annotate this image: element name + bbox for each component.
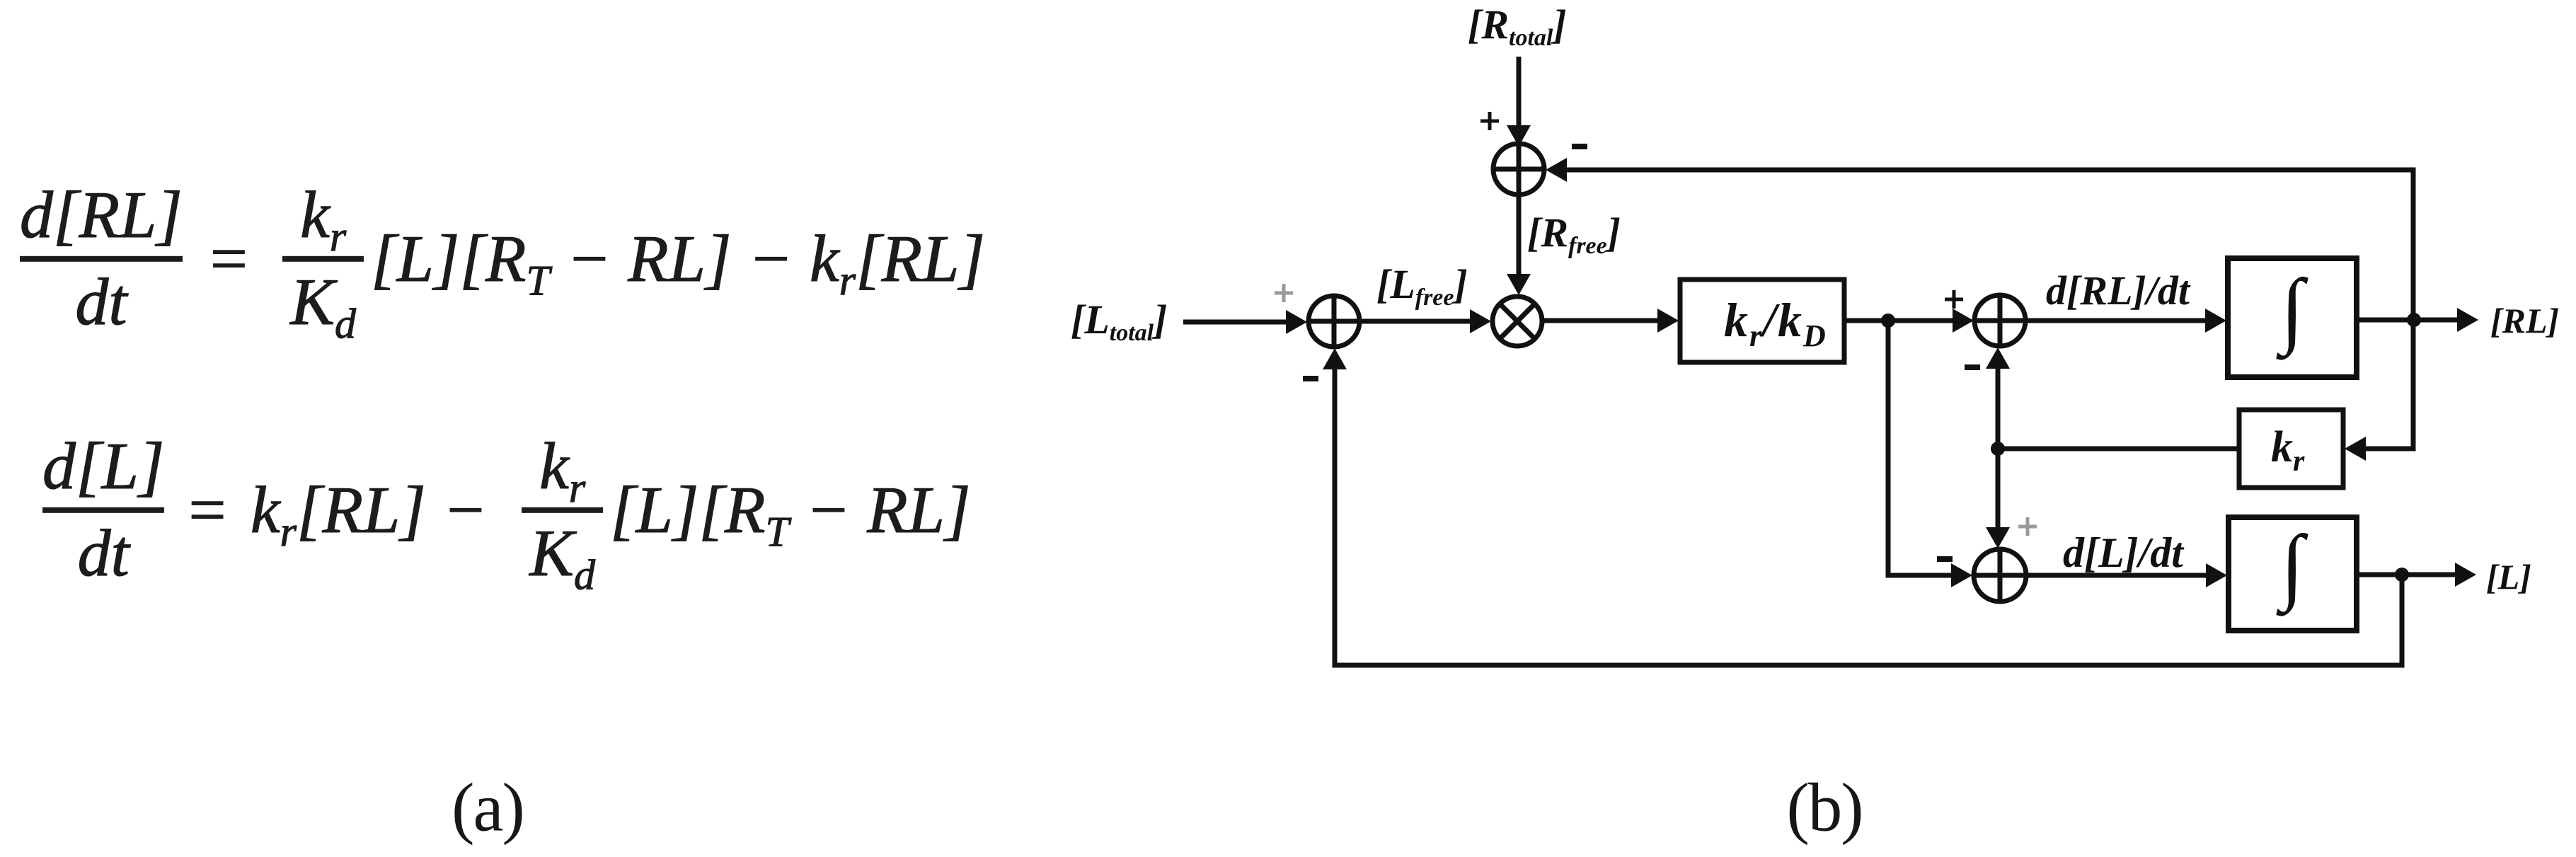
svg-text:d[L]/dt: d[L]/dt	[2063, 529, 2185, 576]
wire node up to S3 minus	[1996, 366, 2001, 449]
junction dot L output	[2395, 568, 2409, 582]
box integrator 2	[2229, 517, 2357, 631]
svg-text:[RL]: [RL]	[2490, 301, 2559, 340]
box kr/kD	[1680, 280, 1844, 362]
arrowhead into kr box right	[2345, 437, 2366, 461]
arrowhead into multiplier left	[1470, 309, 1491, 333]
arrowhead L output	[2455, 563, 2476, 587]
junction dot after kr/kD	[1881, 314, 1895, 328]
summing junction S2 (L_total - feedback)	[1309, 296, 1359, 347]
box kr	[2239, 410, 2343, 488]
arrowhead into S2 bottom	[1323, 348, 1347, 369]
caption (b)	[1786, 769, 1862, 847]
wire S3 to integrator 1	[2025, 318, 2208, 323]
wire node down to S4 plus	[1996, 449, 2001, 531]
box integrator 1	[2228, 258, 2357, 377]
wire L_total input	[1183, 320, 1288, 325]
summing junction S4 (d[L]/dt)	[1974, 549, 2026, 602]
arrowhead into S3 bottom	[1986, 347, 2010, 369]
arrowhead into multiplier top	[1507, 274, 1531, 295]
minus sign S3	[1965, 364, 1980, 370]
caption (a)	[452, 769, 524, 847]
equation (a) line 1: d[RL]/dt = kr/Kd [L][RT - RL] - kr[RL]	[20, 189, 985, 329]
svg-text:d[RL]/dt: d[RL]/dt	[2046, 268, 2191, 314]
arrowhead into S4 top	[1986, 527, 2010, 548]
svg-text:[L]: [L]	[2486, 557, 2531, 597]
arrowhead into S1 top	[1507, 125, 1531, 146]
svg-text:kr: kr	[2271, 423, 2305, 478]
arrowhead into kr/kD box	[1657, 309, 1679, 333]
minus sign S2	[1303, 376, 1318, 381]
svg-text:∫: ∫	[2276, 262, 2309, 361]
summing junction S1 (R_total - feedback)	[1493, 144, 1544, 195]
svg-text:∫: ∫	[2276, 518, 2309, 617]
svg-text:[Rtotal]: [Rtotal]	[1468, 1, 1567, 51]
arrowhead into S3 left	[1953, 309, 1974, 333]
wire kr output to node	[1998, 447, 2239, 451]
wire R_total input	[1517, 57, 1522, 127]
arrowhead into S1 right	[1546, 158, 1567, 182]
svg-text:[Lfree]: [Lfree]	[1376, 261, 1468, 311]
wire S2 to multiplier	[1359, 319, 1473, 324]
wire S4 to integrator 2	[2026, 573, 2209, 578]
wire multiplier to kr/kD box	[1542, 318, 1660, 323]
wire S1 to multiplier	[1517, 195, 1522, 277]
arrowhead into integrator 2	[2206, 563, 2227, 587]
wire branch kD node down to S4	[1888, 321, 1953, 575]
multiplier M	[1493, 297, 1542, 346]
wire integrator 1 output to RL	[2357, 318, 2459, 323]
svg-text:kr/kD: kr/kD	[1724, 293, 1827, 353]
wire bottom feedback	[1335, 367, 2402, 665]
arrowhead RL output	[2457, 308, 2478, 332]
arrowhead into integrator 1	[2205, 309, 2226, 333]
plus sign S4	[2018, 517, 2037, 536]
arrowhead into S4 left	[1951, 563, 1972, 587]
summing junction S3 (d[RL]/dt)	[1974, 295, 2025, 346]
plus sign S1	[1480, 112, 1499, 130]
arrowhead into S2 left	[1286, 310, 1307, 334]
junction dot RL output	[2407, 313, 2421, 327]
svg-text:[Rfree]: [Rfree]	[1527, 209, 1621, 259]
plus sign S2	[1275, 284, 1293, 302]
minus sign S1	[1572, 144, 1587, 149]
junction dot kr node	[1991, 442, 2005, 456]
wire integrator 2 output to L	[2357, 573, 2456, 577]
wire kr/kD box to S3	[1844, 318, 1955, 323]
minus sign S4	[1937, 556, 1953, 562]
svg-text:[Ltotal]: [Ltotal]	[1071, 297, 1167, 346]
plus sign S3	[1945, 290, 1963, 309]
equation (a) line 2: d[L]/dt = kr[RL] - kr/Kd [L][RT - RL]	[42, 440, 971, 580]
wire top feedback	[1565, 170, 2413, 449]
